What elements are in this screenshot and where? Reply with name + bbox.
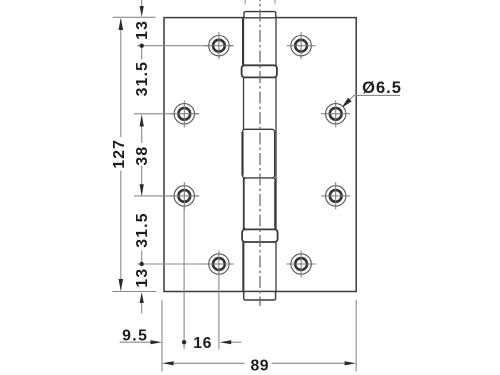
svg-text:9.5: 9.5 bbox=[122, 327, 148, 344]
svg-text:31.5: 31.5 bbox=[134, 61, 151, 97]
svg-text:38: 38 bbox=[134, 146, 151, 166]
svg-text:16: 16 bbox=[193, 335, 212, 352]
svg-text:31.5: 31.5 bbox=[134, 212, 151, 248]
svg-text:Ø6.5: Ø6.5 bbox=[362, 79, 402, 97]
svg-text:89: 89 bbox=[251, 358, 270, 375]
svg-text:13: 13 bbox=[134, 20, 151, 40]
svg-text:127: 127 bbox=[111, 139, 128, 169]
svg-text:13: 13 bbox=[134, 268, 151, 288]
